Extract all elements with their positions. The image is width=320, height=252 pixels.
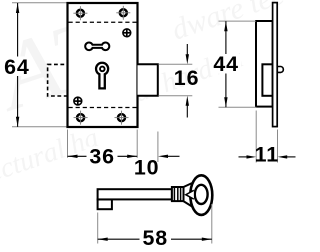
dimension 36 text xyxy=(87,147,118,167)
dimension 16 arrow down xyxy=(186,44,188,60)
dimension 36 arrow right xyxy=(127,155,137,158)
side view faceplate xyxy=(273,3,278,127)
keyhole xyxy=(96,63,108,89)
dimension 44 arrow up xyxy=(224,21,227,31)
svg-text:58: 58 xyxy=(143,226,169,250)
extension line 64 bottom xyxy=(12,126,68,128)
dimension 64 text xyxy=(4,57,32,77)
screw hole top-left xyxy=(73,6,87,20)
screw hole bottom-left xyxy=(74,111,88,125)
side view bolt xyxy=(262,64,272,96)
side view case xyxy=(256,21,273,107)
key cone to bow xyxy=(184,182,194,207)
dimension 58 arrow left xyxy=(98,238,108,241)
key bow outer xyxy=(190,175,212,215)
extension line 16 top xyxy=(159,63,193,65)
extension line 11 left xyxy=(255,111,257,163)
extension line 10 right xyxy=(157,132,159,163)
slot (bone shaped) xyxy=(85,43,109,51)
dimension 11 arrow left xyxy=(239,156,249,158)
dashed fold line top xyxy=(69,21,137,23)
key bow inner hole xyxy=(195,185,208,204)
dimension 44 line xyxy=(225,21,227,107)
offset screw bottom-left xyxy=(74,97,82,105)
dimension 36 arrow left xyxy=(68,155,78,158)
key shaft xyxy=(98,189,172,199)
extension line 16 bottom xyxy=(159,95,193,97)
dimension 36 line xyxy=(68,155,138,157)
dimension 64 line xyxy=(17,3,19,127)
dimension 11 arrow right xyxy=(287,156,296,158)
extension line 44 bottom xyxy=(219,106,257,108)
extension line 44 top xyxy=(219,20,257,22)
dashed fold line bottom xyxy=(69,107,137,109)
dimension 44 arrow down xyxy=(224,97,227,107)
dimension 64 arrow up xyxy=(16,3,19,13)
front plate xyxy=(68,3,138,127)
key notch wedge xyxy=(186,190,194,199)
svg-text:10: 10 xyxy=(134,155,160,179)
dashed bolt (thrown position) xyxy=(48,64,68,96)
extension line 58 right xyxy=(211,204,213,244)
svg-text:11: 11 xyxy=(255,143,279,167)
dimension 44 text xyxy=(212,54,241,74)
key collars xyxy=(172,187,184,201)
svg-text:64: 64 xyxy=(4,55,30,79)
offset screw top-right xyxy=(123,29,131,37)
extension line 36 left xyxy=(67,130,69,158)
svg-text:16: 16 xyxy=(174,66,200,90)
extension line 11 right xyxy=(277,130,279,163)
side view knob xyxy=(277,67,283,73)
dimension 58 text xyxy=(140,229,172,248)
bolt (front view) xyxy=(138,64,158,96)
svg-text:36: 36 xyxy=(89,145,115,169)
screw hole top-right xyxy=(116,6,130,20)
screw hole bottom-right xyxy=(115,111,129,125)
extension line 64 top xyxy=(12,2,68,4)
svg-text:44: 44 xyxy=(213,52,239,76)
dimension 64 arrow down xyxy=(16,117,19,127)
keyhole inner circle xyxy=(100,67,105,72)
dimension 10 arrow xyxy=(167,155,180,157)
key bit xyxy=(98,199,112,209)
extension line 36 right xyxy=(136,130,138,158)
dimension 58 line xyxy=(98,238,212,240)
extension line 58 left xyxy=(97,213,99,244)
dimension 16 arrow up xyxy=(186,100,188,118)
dimension 58 arrow right xyxy=(202,238,212,241)
